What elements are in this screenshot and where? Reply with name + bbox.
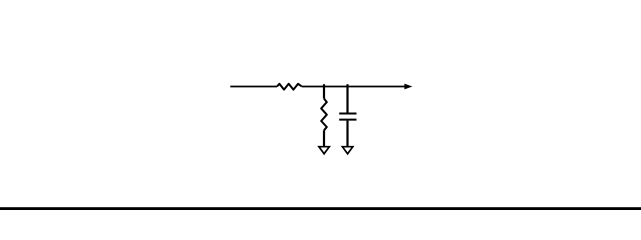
resistor R2 (shunt, vertical zigzag) bbox=[321, 99, 327, 131]
arrowhead: output direction arrow bbox=[405, 84, 412, 89]
node A: junction stub of shunt resistor branch bbox=[323, 84, 325, 98]
resistor R1 (series, horizontal zigzag) bbox=[277, 84, 302, 90]
ground: open-arrow ground under R2 bbox=[319, 147, 329, 154]
capacitor C1: top plate bbox=[339, 113, 356, 115]
wire: from resistor to arrow bbox=[302, 86, 405, 88]
bottom rule: page footer bar bbox=[0, 207, 641, 210]
wire: capacitor to ground bbox=[346, 121, 348, 147]
wire: resistor R2 to ground bbox=[323, 130, 325, 146]
node B: junction stub of capacitor branch bbox=[346, 84, 348, 112]
wire: main horizontal signal line bbox=[230, 86, 277, 88]
ground: open-arrow ground under C1 bbox=[342, 147, 352, 154]
capacitor C1: bottom plate bbox=[339, 119, 356, 121]
